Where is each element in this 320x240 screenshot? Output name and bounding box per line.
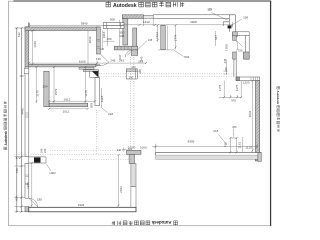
svg-text:1659: 1659 <box>225 44 229 51</box>
svg-text:765: 765 <box>224 142 228 147</box>
svg-text:1175: 1175 <box>235 84 239 91</box>
svg-text:249: 249 <box>40 148 44 153</box>
svg-text:240: 240 <box>138 69 142 74</box>
svg-text:185: 185 <box>37 198 42 202</box>
svg-text:245: 245 <box>223 58 227 63</box>
svg-text:730: 730 <box>237 49 242 53</box>
svg-text:718: 718 <box>15 168 19 173</box>
svg-text:172: 172 <box>15 156 20 160</box>
svg-text:198: 198 <box>243 16 248 20</box>
svg-text:4004: 4004 <box>248 110 252 117</box>
svg-text:1440: 1440 <box>33 41 37 48</box>
svg-text:1161: 1161 <box>238 142 242 149</box>
svg-text:245: 245 <box>148 38 153 42</box>
svg-text:130: 130 <box>96 57 101 61</box>
svg-text:1200: 1200 <box>243 81 250 85</box>
svg-text:215: 215 <box>224 67 228 72</box>
svg-text:4440: 4440 <box>21 108 25 115</box>
svg-text:243: 243 <box>43 148 47 153</box>
svg-text:632: 632 <box>17 32 21 37</box>
svg-text:2030: 2030 <box>88 36 92 43</box>
svg-text:926: 926 <box>95 63 100 67</box>
svg-text:1579: 1579 <box>54 88 58 95</box>
svg-text:1774: 1774 <box>173 34 177 41</box>
svg-text:6106: 6106 <box>79 59 86 63</box>
svg-text:908: 908 <box>110 18 115 22</box>
svg-text:172: 172 <box>19 74 24 78</box>
svg-text:1916: 1916 <box>102 31 106 38</box>
svg-text:206: 206 <box>232 125 237 129</box>
svg-text:218: 218 <box>213 129 218 133</box>
svg-text:2043: 2043 <box>119 186 123 193</box>
svg-text:A02: A02 <box>127 147 132 151</box>
svg-text:142: 142 <box>27 22 31 27</box>
svg-text:2012: 2012 <box>63 109 70 113</box>
svg-text:247: 247 <box>118 54 122 59</box>
svg-text:1120: 1120 <box>245 146 252 150</box>
svg-text:1128: 1128 <box>100 95 104 102</box>
svg-text:443: 443 <box>131 66 136 69</box>
svg-text:1612: 1612 <box>143 20 150 24</box>
svg-text:1175: 1175 <box>35 90 39 97</box>
svg-text:124: 124 <box>42 85 47 89</box>
svg-text:218: 218 <box>108 112 113 116</box>
svg-text:1000: 1000 <box>140 145 147 149</box>
svg-text:199: 199 <box>207 7 212 11</box>
svg-text:1002: 1002 <box>49 171 56 175</box>
svg-text:994: 994 <box>15 195 19 200</box>
svg-text:240: 240 <box>117 148 122 152</box>
svg-text:1614: 1614 <box>155 32 159 39</box>
svg-text:3608: 3608 <box>190 20 197 24</box>
svg-text:245: 245 <box>140 56 144 61</box>
svg-text:190: 190 <box>106 37 111 41</box>
svg-text:1476: 1476 <box>26 182 30 189</box>
svg-text:140: 140 <box>129 77 134 80</box>
svg-text:938: 938 <box>119 34 124 38</box>
svg-text:647: 647 <box>214 35 218 40</box>
svg-text:120: 120 <box>100 47 105 51</box>
svg-text:1175: 1175 <box>84 90 88 97</box>
svg-text:8399: 8399 <box>188 140 195 144</box>
svg-text:249: 249 <box>110 58 115 62</box>
svg-text:5940: 5940 <box>81 22 88 26</box>
svg-text:2012: 2012 <box>64 98 71 102</box>
svg-text:1924: 1924 <box>78 203 85 207</box>
svg-text:370: 370 <box>231 99 236 103</box>
svg-text:928: 928 <box>90 103 94 108</box>
svg-text:502: 502 <box>184 55 189 59</box>
svg-text:1175: 1175 <box>218 84 222 91</box>
